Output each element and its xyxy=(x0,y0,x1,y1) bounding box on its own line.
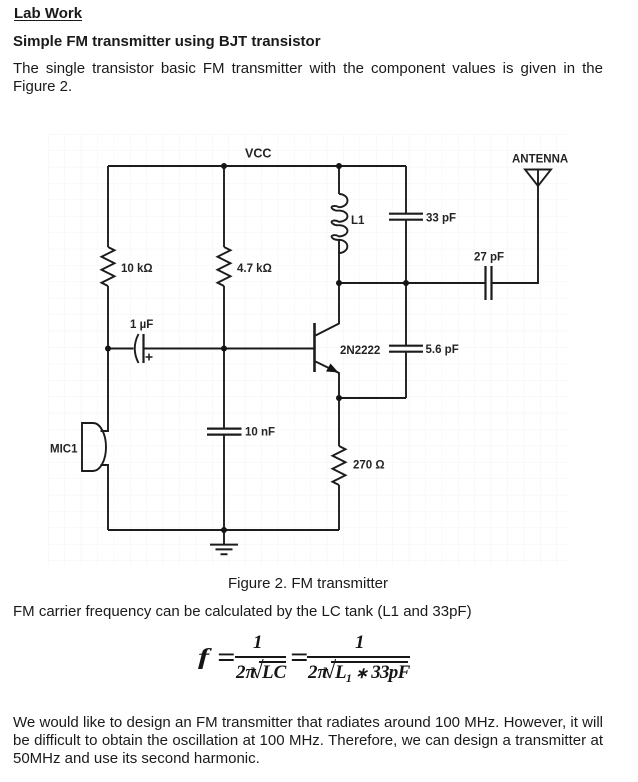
inductor L1 xyxy=(332,194,348,253)
capacitor C5 5.6pF plates xyxy=(389,346,423,352)
capacitor C3 33pF plates xyxy=(389,214,423,220)
subheading xyxy=(13,33,321,50)
transistor Q1 base bar xyxy=(313,323,316,372)
wire middle branch middle xyxy=(223,286,225,428)
antenna xyxy=(525,170,551,187)
wire R3 to bottom rail xyxy=(338,485,340,530)
node VCC junction L1 xyxy=(336,163,342,169)
capacitor C1 1uF curved plate xyxy=(135,334,139,363)
wire bottom rail xyxy=(108,529,339,531)
transistor Q1 emitter arrow xyxy=(326,364,339,373)
node collector junction xyxy=(336,280,342,286)
node emitter junction xyxy=(336,395,342,401)
wire 5.6pF branch upper xyxy=(405,283,407,346)
wire mic bottom stub xyxy=(101,465,109,530)
svg-text:10 kΩ: 10 kΩ xyxy=(121,263,153,275)
svg-text:27 pF: 27 pF xyxy=(474,252,504,264)
microphone MIC1 xyxy=(82,423,106,471)
capacitor C1 1uF straight plate xyxy=(142,334,144,363)
svg-text:270 Ω: 270 Ω xyxy=(353,460,385,472)
wire left branch to mic xyxy=(101,349,109,432)
wire 27pF to antenna xyxy=(492,186,539,283)
wire L1 to collector node xyxy=(338,239,340,283)
figure caption xyxy=(13,575,603,592)
wire 33pF branch upper xyxy=(405,166,407,214)
node ground junction xyxy=(221,527,227,533)
LC tank sentence xyxy=(13,603,472,620)
resistor R1 xyxy=(102,247,115,286)
wire base right segment xyxy=(144,348,315,350)
svg-text:1 µF: 1 µF xyxy=(130,319,153,331)
svg-text:10 nF: 10 nF xyxy=(245,427,275,439)
plus polarity mark xyxy=(146,354,153,361)
ground xyxy=(223,530,225,544)
capacitor C2 10nF plates xyxy=(207,429,242,435)
formula xyxy=(0,0,638,1)
wire middle branch lower xyxy=(223,435,225,530)
wire left branch upper xyxy=(107,166,109,247)
svg-text:VCC: VCC xyxy=(245,147,271,161)
node VCC junction R2 xyxy=(221,163,227,169)
node tank junction xyxy=(403,280,409,286)
resistor R2 xyxy=(218,247,231,286)
svg-text:2N2222: 2N2222 xyxy=(340,345,380,357)
wire middle branch upper xyxy=(223,166,225,247)
wire L1 branch upper xyxy=(338,166,340,194)
transistor Q1 collector lead xyxy=(316,283,340,336)
wire emitter branch xyxy=(338,398,340,446)
closing paragraph xyxy=(13,714,603,768)
wire 33pF branch lower xyxy=(405,220,407,283)
capacitor C4 27pF plates xyxy=(486,266,492,300)
node base cap junction xyxy=(105,346,111,352)
svg-text:5.6 pF: 5.6 pF xyxy=(426,344,459,356)
svg-text:ANTENNA: ANTENNA xyxy=(512,154,568,166)
node base divider junction xyxy=(221,346,227,352)
wire 5.6pF branch lower xyxy=(405,352,407,398)
wire left branch middle xyxy=(107,286,109,349)
svg-text:4.7 kΩ: 4.7 kΩ xyxy=(237,263,272,275)
intro paragraph xyxy=(13,60,603,96)
transistor Q1 emitter lead xyxy=(316,362,340,399)
wire collector rail xyxy=(339,282,485,284)
svg-text:33 pF: 33 pF xyxy=(426,213,456,225)
svg-text:L1: L1 xyxy=(351,215,365,227)
wire base left segment xyxy=(108,348,134,350)
svg-text:MIC1: MIC1 xyxy=(50,444,78,456)
wire VCC top rail xyxy=(108,165,406,167)
heading Lab Work xyxy=(14,5,82,22)
wire emitter rail xyxy=(339,397,406,399)
resistor R3 xyxy=(333,446,346,485)
